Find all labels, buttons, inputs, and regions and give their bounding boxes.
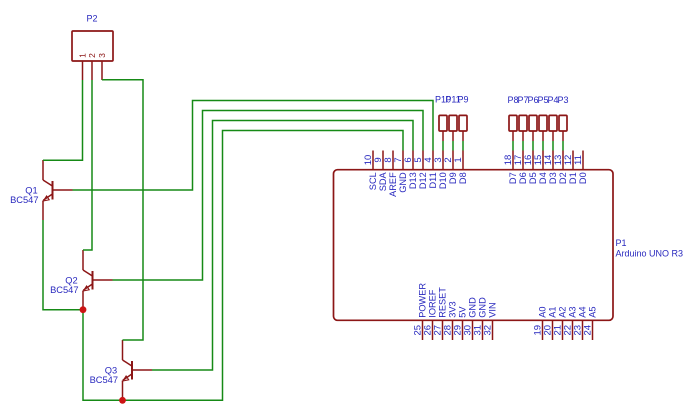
P8 pin 1 <box>512 131 514 141</box>
svg-text:D12: D12 <box>418 172 428 189</box>
wire P11 to P1 pin D9 <box>452 141 454 151</box>
svg-text:D3: D3 <box>548 172 558 184</box>
svg-text:GND: GND <box>478 297 488 318</box>
Q1 collector pin <box>42 160 44 180</box>
connector P10 <box>435 95 451 142</box>
P11 body <box>449 115 457 131</box>
P1 pin 20 A1 <box>543 306 558 340</box>
connector P2 <box>72 14 113 81</box>
P1 pin 15 D4 <box>533 151 548 185</box>
Q3 collector diagonal <box>123 360 132 366</box>
svg-text:24: 24 <box>583 325 594 336</box>
P3 pin 1 <box>562 131 564 141</box>
P4 pin 1 <box>552 131 554 141</box>
Q3 emitter diagonal <box>123 374 132 380</box>
P9 body <box>459 115 467 131</box>
P6 pin 1 <box>532 131 534 141</box>
P5 body <box>539 115 547 131</box>
svg-text:3: 3 <box>97 53 107 58</box>
P2 pin 2 <box>87 53 97 80</box>
connector P7 <box>517 95 528 141</box>
transistor Q2 BC547 <box>50 250 112 310</box>
svg-text:GND: GND <box>468 297 478 318</box>
P1 pin 6 D13 <box>403 151 418 190</box>
svg-text:BC547: BC547 <box>50 285 78 295</box>
transistor Q1 BC547 <box>10 160 72 220</box>
P1 pin 14 D3 <box>543 151 558 185</box>
svg-text:11: 11 <box>573 155 584 165</box>
P1 pin 19 A0 <box>533 306 548 340</box>
junction Q1/Q2 emitters <box>80 306 87 313</box>
Q2 collector pin <box>82 250 84 270</box>
svg-text:A0: A0 <box>538 306 548 317</box>
P1 pin 30 GND <box>463 297 478 340</box>
wire P8 to P1 pin D7 <box>512 141 514 151</box>
svg-text:D10: D10 <box>438 172 448 189</box>
svg-text:D0: D0 <box>578 172 588 184</box>
svg-text:3V3: 3V3 <box>448 301 458 317</box>
svg-text:P3: P3 <box>557 95 568 105</box>
Q1 emitter pin <box>42 201 44 221</box>
connector P11 <box>445 95 460 142</box>
svg-text:A2: A2 <box>558 306 568 317</box>
P3 body <box>559 115 567 131</box>
svg-text:D4: D4 <box>538 172 548 184</box>
svg-text:AREF: AREF <box>388 172 398 197</box>
wire P2 pin3 to Q3 collector <box>102 80 143 340</box>
P1 pin 17 D6 <box>513 151 528 185</box>
wire P6 to P1 pin D5 <box>532 141 534 151</box>
wire P5 to P1 pin D4 <box>542 141 544 151</box>
P7 pin 1 <box>522 131 524 141</box>
svg-text:VIN: VIN <box>488 302 498 317</box>
P11 pin 1 <box>452 131 454 141</box>
svg-text:1: 1 <box>453 157 464 162</box>
svg-text:A4: A4 <box>578 306 588 317</box>
Q3 base pin <box>132 369 152 371</box>
P1 pin 26 IOREF <box>423 289 438 340</box>
svg-text:RESET: RESET <box>438 287 448 318</box>
connector P6 <box>527 95 538 141</box>
P1 pin 28 3V3 <box>443 301 458 340</box>
P1 pin 27 RESET <box>433 287 448 340</box>
svg-text:A1: A1 <box>548 306 558 317</box>
P1 pin 25 POWER <box>413 283 428 340</box>
Q2 emitter pin <box>82 291 84 311</box>
svg-text:D5: D5 <box>528 172 538 184</box>
Q3 emitter arrow <box>123 376 129 381</box>
transistor Q3 BC547 <box>90 340 152 400</box>
Q3 base bar <box>131 361 133 380</box>
svg-text:IOREF: IOREF <box>428 289 438 317</box>
P1 pin 32 VIN <box>483 302 498 340</box>
wire P3 to P1 pin D2 <box>562 141 564 151</box>
svg-text:BC547: BC547 <box>10 195 38 205</box>
wire P2 pin1 to Q1 collector <box>43 80 83 160</box>
wire P10 to P1 pin D10 <box>442 141 444 151</box>
P5 pin 1 <box>542 131 544 141</box>
svg-text:A3: A3 <box>568 306 578 317</box>
svg-text:1: 1 <box>78 53 88 58</box>
svg-text:BC547: BC547 <box>90 375 118 385</box>
P1 pin 2 D9 <box>443 151 458 185</box>
wire Q1 emitter to junction <box>43 220 83 310</box>
svg-text:5V: 5V <box>458 306 468 318</box>
svg-text:D11: D11 <box>428 172 438 188</box>
svg-text:2: 2 <box>87 53 97 58</box>
Q1 emitter arrow <box>43 196 49 201</box>
P1 body <box>334 170 614 321</box>
P1 pin 7 GND <box>393 151 408 193</box>
wire P4 to P1 pin D3 <box>552 141 554 151</box>
Q3 collector pin <box>122 340 124 360</box>
Q1 collector diagonal <box>43 180 52 186</box>
Q2 emitter arrow <box>83 286 89 291</box>
svg-text:POWER: POWER <box>418 283 428 318</box>
P6 body <box>529 115 537 131</box>
P2 body <box>72 31 113 61</box>
P10 body <box>439 115 447 131</box>
connector P5 <box>537 95 548 141</box>
Q3 emitter pin <box>122 381 124 401</box>
P1 pin 31 GND <box>473 297 488 340</box>
P1 pin 12 D1 <box>563 151 578 185</box>
wire P2 pin2 to Q2 collector <box>83 80 92 250</box>
svg-text:D9: D9 <box>448 172 458 184</box>
P1 pin 3 D10 <box>433 151 448 190</box>
P1 pin 9 SDA <box>373 151 388 192</box>
P1 pin 23 A4 <box>573 306 588 340</box>
P10 pin 1 <box>442 131 444 141</box>
P8 body <box>509 115 517 131</box>
P2 pin 3 <box>97 53 107 80</box>
P1 pin 10 SCL <box>363 151 378 191</box>
P1 pin 1 D8 <box>453 151 468 185</box>
P1 pin 22 A3 <box>563 306 578 340</box>
wire Q2 base to P1 pin D12 <box>113 111 424 281</box>
P1 pin 16 D5 <box>523 151 538 185</box>
P1 pin 29 5V <box>453 306 468 340</box>
wire P7 to P1 pin D6 <box>522 141 524 151</box>
wire Q1 base to P1 pin D11 <box>73 101 434 191</box>
connector P3 <box>557 95 568 141</box>
P1 pin 8 AREF <box>383 151 398 197</box>
P2 pin 1 <box>78 53 88 80</box>
P1 pin 21 A2 <box>553 306 568 340</box>
wire Q3 base to P1 pin D13 <box>152 121 413 371</box>
Q1 base bar <box>52 181 54 200</box>
connector P9 <box>457 95 468 142</box>
P4 body <box>549 115 557 131</box>
connector P8 <box>507 95 518 141</box>
Q1 emitter diagonal <box>43 194 52 200</box>
svg-text:SCL: SCL <box>368 172 378 190</box>
P1 pin 24 A5 <box>583 306 598 340</box>
svg-text:D2: D2 <box>558 172 568 184</box>
svg-text:SDA: SDA <box>378 171 388 191</box>
svg-text:D1: D1 <box>568 172 578 184</box>
svg-text:P2: P2 <box>86 14 97 24</box>
svg-text:32: 32 <box>483 325 494 336</box>
svg-text:P1: P1 <box>616 238 627 248</box>
svg-text:D13: D13 <box>408 172 418 189</box>
svg-text:D8: D8 <box>458 172 468 184</box>
junction Q3 emitter <box>119 397 126 404</box>
P1 pin 18 D7 <box>503 151 518 185</box>
svg-text:Arduino UNO R3: Arduino UNO R3 <box>616 249 684 259</box>
svg-text:GND: GND <box>398 172 408 193</box>
wire emitter rail to P1 pin GND <box>83 131 403 401</box>
Q1 base pin <box>53 189 73 191</box>
P1 pin 13 D2 <box>553 151 568 185</box>
P9 pin 1 <box>462 131 464 141</box>
svg-text:A5: A5 <box>588 306 598 317</box>
Q2 base bar <box>92 271 94 290</box>
connector P4 <box>547 95 558 141</box>
svg-text:D6: D6 <box>518 172 528 184</box>
P1 pin 11 D0 <box>573 151 588 185</box>
Q2 base pin <box>93 279 113 281</box>
Q2 emitter diagonal <box>83 284 92 290</box>
P7 body <box>519 115 527 131</box>
IC P1 Arduino UNO R3 <box>334 151 684 341</box>
svg-text:D7: D7 <box>508 172 518 184</box>
svg-text:P9: P9 <box>457 95 468 105</box>
P1 pin 5 D12 <box>413 151 428 190</box>
wire P9 to P1 pin D8 <box>462 141 464 151</box>
P1 pin 4 D11 <box>423 151 438 189</box>
Q2 collector diagonal <box>83 270 92 276</box>
